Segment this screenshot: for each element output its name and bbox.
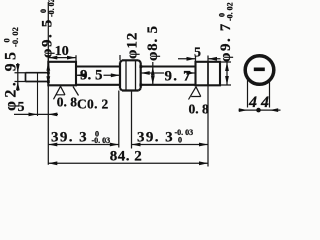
svg-text:φ9. 5: φ9. 5 xyxy=(40,18,56,58)
svg-text:-0. 02: -0. 02 xyxy=(226,2,235,21)
svg-text:5: 5 xyxy=(194,46,201,61)
stub division line xyxy=(37,73,39,116)
end block φ9.7 (5 long) xyxy=(196,62,221,86)
svg-text:-0. 02: -0. 02 xyxy=(47,0,56,17)
dim 5 bottom line xyxy=(14,113,58,115)
collar φ12 xyxy=(120,60,141,90)
label φ2.95 rotated xyxy=(2,27,21,111)
dim 39.3 first: line and ext xyxy=(48,91,119,148)
arrows 9.5 xyxy=(76,73,85,77)
dim 5 top ext and line xyxy=(178,56,221,62)
dim 10 exts and line xyxy=(48,55,76,62)
label φ9.7 rotated xyxy=(218,2,235,62)
arrows φ9.5 (inside on face line) xyxy=(46,62,50,71)
end view slot bar xyxy=(254,68,265,72)
svg-text:φ8. 5: φ8. 5 xyxy=(145,25,161,61)
svg-text:9. 7: 9. 7 xyxy=(165,69,192,85)
arrows 39.3 first xyxy=(48,143,57,147)
svg-text:0. 8: 0. 8 xyxy=(57,95,78,110)
svg-text:9. 5: 9. 5 xyxy=(80,68,103,84)
label φ12 rotated xyxy=(125,32,141,59)
dim φ2.95 ticks and line xyxy=(15,63,28,91)
arrows φ8.5 xyxy=(151,67,155,76)
right shaft φ8.5 xyxy=(141,67,196,85)
dim 39.3 second: line and ext xyxy=(132,91,209,149)
arrows 5 bottom xyxy=(29,113,38,117)
dim 9.7 line xyxy=(141,72,196,74)
arrows φ9.7 xyxy=(225,62,229,71)
svg-text:0: 0 xyxy=(178,135,182,144)
arrows 84.2 xyxy=(48,161,57,165)
dim 9.5 line xyxy=(76,74,120,76)
svg-text:-0. 03: -0. 03 xyxy=(92,136,111,145)
arrows 9.7 xyxy=(141,71,150,75)
slot ext line down xyxy=(207,85,209,166)
C0.2 leader xyxy=(73,87,79,96)
svg-text:39. 3: 39. 3 xyxy=(51,130,88,146)
svg-text:39. 3: 39. 3 xyxy=(137,130,174,146)
dim φ12 ext up xyxy=(119,55,121,60)
svg-text:-0. 02: -0. 02 xyxy=(10,27,20,47)
label φ8.5 rotated xyxy=(145,25,161,61)
slot line in end block xyxy=(207,62,209,86)
dim φ9.7 ticks and line xyxy=(220,62,231,85)
dim φ9.5 line (block left face extended) xyxy=(47,2,49,165)
svg-text:84. 2: 84. 2 xyxy=(110,148,143,164)
svg-text:10: 10 xyxy=(55,44,69,59)
svg-text:φ9. 7: φ9. 7 xyxy=(218,22,234,62)
arrows 10 xyxy=(48,56,57,60)
mid shaft xyxy=(76,67,120,85)
svg-text:C0. 2: C0. 2 xyxy=(77,97,109,112)
shaft tip outline (φ2.95 stub) xyxy=(26,73,49,82)
end view circle xyxy=(245,56,274,85)
arrows 5 top (outside) xyxy=(187,57,196,61)
arrows end view (outside) xyxy=(239,108,248,112)
junction blobs xyxy=(139,65,142,68)
block φ9.5 (10 long) xyxy=(48,62,76,86)
roughness symbol 2 (under end block) xyxy=(189,87,201,100)
arrows φ2.95 (outside) xyxy=(16,64,20,73)
svg-text:φ12: φ12 xyxy=(125,32,141,59)
end view bottom dim line xyxy=(239,109,281,111)
svg-text:0. 8: 0. 8 xyxy=(189,102,210,117)
dim φ8.5 line xyxy=(152,62,154,85)
svg-text:4 4: 4 4 xyxy=(248,94,269,111)
svg-text:φ2. 95: φ2. 95 xyxy=(3,49,20,111)
roughness symbol 1 (under block 1) xyxy=(54,86,66,99)
dim 84.2 line xyxy=(48,162,208,164)
arrows 39.3 second xyxy=(132,143,141,147)
end view flat extension lines xyxy=(248,80,270,108)
end view center dot xyxy=(256,108,261,113)
collar groove lines xyxy=(126,61,136,91)
label φ9.5 rotated xyxy=(39,0,56,58)
